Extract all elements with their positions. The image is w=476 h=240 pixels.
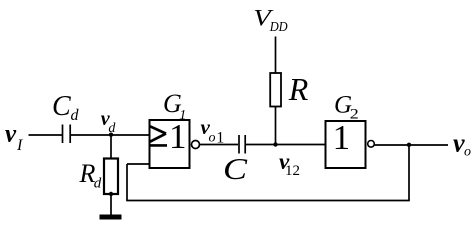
ground: [100, 215, 122, 220]
resistor Rd: [104, 159, 118, 195]
capacitor C: [239, 135, 245, 154]
svg-text:d: d: [108, 121, 116, 136]
wire R to VDD: [275, 37, 277, 74]
wire C to G2 input: [246, 144, 325, 146]
logic gate G1 (IEC NOR) box: [150, 120, 190, 168]
resistor R: [270, 73, 281, 107]
svg-text:R: R: [288, 71, 309, 107]
junction dot at Rd bottom: [109, 192, 113, 196]
svg-text:DD: DD: [269, 20, 288, 35]
node vo label: [453, 129, 471, 160]
feedback wire right vertical: [408, 145, 410, 201]
wire Rd to ground: [110, 194, 112, 215]
wire Cd to G1 input: [71, 134, 149, 136]
node VDD label: [253, 6, 287, 36]
wire vd down to Rd: [110, 135, 112, 158]
svg-text:C: C: [223, 151, 247, 186]
G1 output bubble: [192, 141, 200, 149]
label Rd: [79, 159, 102, 192]
node vo junction dot: [407, 143, 411, 147]
label Cd: [52, 91, 80, 124]
svg-text:1: 1: [216, 129, 224, 146]
label G1: [163, 89, 186, 123]
svg-text:d: d: [94, 176, 102, 192]
svg-text:C: C: [52, 91, 71, 122]
logic gate G2 (IEC inverter) box: [326, 121, 366, 168]
capacitor Cd: [63, 125, 71, 144]
label G2: [334, 91, 359, 122]
wire input vI to Cd: [29, 134, 63, 136]
svg-text:v: v: [5, 121, 17, 148]
svg-text:I: I: [16, 137, 23, 154]
svg-text:1: 1: [179, 108, 186, 123]
svg-text:o: o: [464, 145, 471, 160]
feedback bottom wire: [126, 200, 410, 202]
svg-text:d: d: [71, 107, 80, 124]
G2 output bubble: [368, 141, 375, 148]
node vI input label: [5, 121, 23, 155]
label vd: [101, 108, 117, 136]
svg-text:o: o: [209, 131, 216, 146]
svg-text:1: 1: [169, 117, 187, 156]
svg-text:12: 12: [285, 163, 300, 179]
node vo1 label: [201, 115, 225, 146]
G1 ">=1" symbol: [150, 117, 187, 156]
wire G2 output to vo: [375, 144, 449, 146]
node vd junction dot: [109, 133, 113, 137]
G1 lower input wire (feedback): [127, 163, 150, 165]
wire G1 output to C: [200, 144, 239, 146]
label v12: [279, 149, 300, 179]
svg-text:2: 2: [350, 106, 359, 122]
node v12 junction dot: [273, 142, 277, 146]
wire v12 up to R: [275, 107, 277, 145]
svg-text:1: 1: [333, 118, 351, 157]
feedback wire left vertical: [126, 164, 128, 201]
